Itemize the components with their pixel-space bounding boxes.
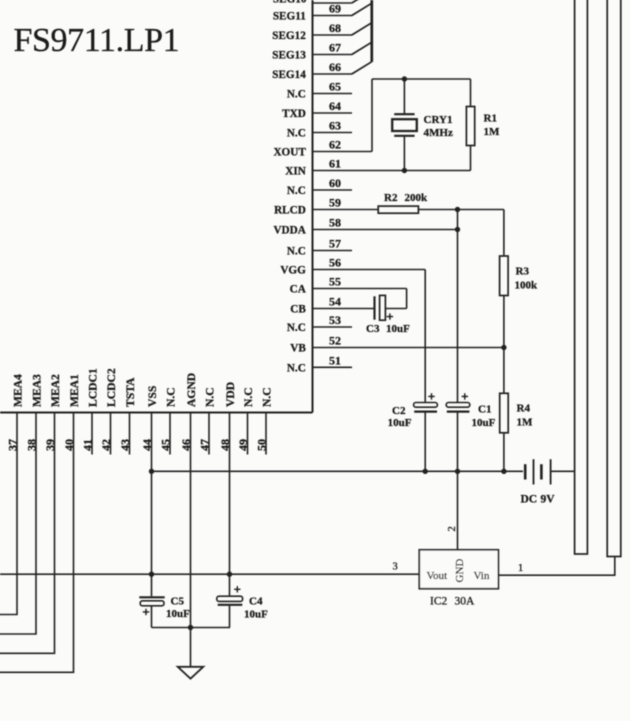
wire crystal loop top xyxy=(372,78,471,80)
svg-text:N.C: N.C xyxy=(287,322,306,334)
C1 polarity plus xyxy=(462,393,468,399)
node crystal bottom junction on XIN xyxy=(402,168,407,173)
svg-text:Vin: Vin xyxy=(474,570,490,582)
crystal CRY1 top plate xyxy=(394,113,414,115)
svg-text:VB: VB xyxy=(290,343,306,355)
svg-text:58: 58 xyxy=(329,216,341,230)
svg-text:MEA2: MEA2 xyxy=(49,374,62,407)
svg-text:FS9711.LP1: FS9711.LP1 xyxy=(14,22,180,59)
wire XOUT to crystal loop xyxy=(352,151,372,153)
ground symbol xyxy=(178,667,204,679)
svg-text:Vout: Vout xyxy=(427,570,448,582)
wire CA line xyxy=(352,288,407,290)
probe bar left xyxy=(575,0,588,554)
wire C3 to CA corner xyxy=(385,308,406,310)
svg-text:VSS: VSS xyxy=(146,386,159,407)
wire R1 bottom lead xyxy=(470,146,472,171)
svg-text:64: 64 xyxy=(329,99,341,113)
pin 50 stub xyxy=(265,413,267,455)
capacitor C2 top plate xyxy=(414,403,438,408)
wire pin 48 VDD vertical xyxy=(229,413,231,597)
resistor R4 xyxy=(500,393,509,433)
wire R4 bottom lead xyxy=(503,433,505,472)
pin 65 stub xyxy=(313,93,353,95)
pin 67 diagonal to bus xyxy=(352,42,372,54)
wire VDDA line xyxy=(352,229,458,231)
svg-text:N.C: N.C xyxy=(203,387,216,407)
pin 55 stub xyxy=(313,288,353,290)
svg-text:59: 59 xyxy=(329,196,341,210)
wire crystal bottom lead xyxy=(403,136,405,171)
SEG bus vertical xyxy=(370,0,373,62)
svg-text:SEG12: SEG12 xyxy=(272,30,306,42)
pin 45 stub xyxy=(169,413,171,455)
capacitor C2 bottom plate xyxy=(414,411,437,413)
wire battery plus to probe bar xyxy=(552,470,576,472)
wire C5 bottom lead xyxy=(151,606,153,628)
pin 68 stub xyxy=(313,34,353,36)
svg-text:CB: CB xyxy=(290,304,306,316)
node rail-R4 junction xyxy=(501,469,506,474)
capacitor C5 top plate xyxy=(139,596,164,598)
svg-text:1M: 1M xyxy=(517,417,534,429)
svg-text:54: 54 xyxy=(329,295,341,309)
wire CA vertical xyxy=(406,289,408,309)
wire VB line xyxy=(352,347,504,349)
node VDDA junction xyxy=(455,227,460,232)
svg-text:C4: C4 xyxy=(249,596,263,608)
svg-text:62: 62 xyxy=(329,138,341,152)
C3 polarity plus xyxy=(387,313,393,319)
pin 63 stub xyxy=(313,132,353,134)
capacitor C4 bottom plate xyxy=(218,604,243,606)
svg-text:9V: 9V xyxy=(541,494,556,506)
wire pin 40 MEA1 xyxy=(0,413,74,673)
svg-text:N.C: N.C xyxy=(287,246,306,258)
svg-text:N.C: N.C xyxy=(242,387,255,407)
svg-text:2: 2 xyxy=(447,526,458,531)
svg-text:SEG14: SEG14 xyxy=(272,69,306,81)
capacitor C1 bottom plate xyxy=(447,411,470,413)
pin 41 stub xyxy=(91,413,93,455)
svg-text:MEA4: MEA4 xyxy=(11,374,24,407)
svg-text:TSTA: TSTA xyxy=(124,377,137,407)
wire bottom rail C5-C4 xyxy=(152,627,231,629)
wire probe bar to Vin xyxy=(499,557,615,576)
node crystal top junction xyxy=(402,76,407,81)
svg-text:10uF: 10uF xyxy=(166,608,190,620)
svg-text:DC: DC xyxy=(521,494,538,506)
svg-text:MEA3: MEA3 xyxy=(30,374,43,407)
svg-text:N.C: N.C xyxy=(287,185,306,197)
svg-text:CRY1: CRY1 xyxy=(424,114,453,126)
IC U1 right edge xyxy=(312,0,314,413)
svg-text:63: 63 xyxy=(329,119,341,133)
battery BT1 long plate 1 xyxy=(533,459,535,484)
svg-text:1: 1 xyxy=(518,563,523,574)
node rail-C1 junction xyxy=(455,469,460,474)
capacitor C4 top plate xyxy=(217,596,243,601)
wire crystal top lead xyxy=(403,79,405,115)
capacitor C3 left plate xyxy=(373,296,375,319)
resistor R3 xyxy=(500,256,509,296)
svg-text:57: 57 xyxy=(329,237,341,251)
wire R3 top lead xyxy=(503,210,505,257)
svg-text:N.C: N.C xyxy=(260,387,273,407)
svg-text:51: 51 xyxy=(329,354,341,368)
wire CB line to C3 xyxy=(352,308,375,310)
pin 51 stub xyxy=(313,366,353,368)
C5 polarity plus xyxy=(143,609,149,615)
svg-text:SEG10: SEG10 xyxy=(273,0,307,5)
wire R4 top lead xyxy=(503,348,505,394)
pin 66 stub xyxy=(313,73,353,75)
regulator IC2 body xyxy=(419,550,498,589)
probe bar right xyxy=(607,0,621,557)
battery BT1 short plate 2 xyxy=(540,464,543,479)
pin 53 stub xyxy=(313,326,353,328)
wire pin 37 MEA4 xyxy=(0,413,17,615)
C4 polarity plus xyxy=(234,586,240,592)
wire R3 bottom lead xyxy=(503,296,505,348)
svg-text:XOUT: XOUT xyxy=(273,147,306,159)
crystal CRY1 bottom plate xyxy=(394,135,414,137)
pin 56 stub xyxy=(313,269,353,271)
pin 52 stub xyxy=(313,347,353,349)
pin 43 stub xyxy=(129,413,131,455)
C2 polarity plus xyxy=(428,393,434,399)
wire C2 bottom lead xyxy=(424,412,426,472)
svg-text:30A: 30A xyxy=(455,596,476,608)
wire RLCD-VDDA-C1 vertical xyxy=(457,210,459,403)
pin 61 stub xyxy=(313,170,353,172)
node VB-R3 junction xyxy=(501,345,506,350)
resistor R2 xyxy=(378,206,418,213)
svg-text:10uF: 10uF xyxy=(388,417,412,429)
pin 59 stub xyxy=(313,209,353,211)
svg-text:68: 68 xyxy=(329,21,341,35)
svg-text:56: 56 xyxy=(329,256,341,270)
svg-text:10uF: 10uF xyxy=(244,608,268,620)
resistor R1 xyxy=(466,107,474,146)
node Vout-VSS junction xyxy=(149,572,154,577)
wire crystal loop left vertical xyxy=(371,79,373,152)
pin 62 stub xyxy=(313,151,353,153)
wire C4 bottom lead xyxy=(229,605,231,628)
pin 60 stub xyxy=(313,189,353,191)
svg-text:C1: C1 xyxy=(478,404,491,416)
wire pin 46 AGND vertical xyxy=(190,413,192,667)
battery BT1 short plate 1 xyxy=(524,464,527,479)
svg-text:LCDC1: LCDC1 xyxy=(86,368,99,407)
svg-text:60: 60 xyxy=(329,176,341,190)
crystal CRY1 body xyxy=(392,119,417,131)
svg-text:10uF: 10uF xyxy=(386,323,410,335)
pin 58 stub xyxy=(313,229,353,231)
pin 70 diagonal xyxy=(352,0,363,3)
capacitor C3 right plate xyxy=(380,295,386,320)
wire pin 44 VSS vertical xyxy=(151,413,153,597)
pin 64 stub xyxy=(313,112,353,114)
svg-text:4MHz: 4MHz xyxy=(424,127,453,139)
wire VGG vertical to C2 xyxy=(424,270,426,403)
svg-text:C2: C2 xyxy=(392,405,406,417)
svg-text:AGND: AGND xyxy=(185,373,198,407)
svg-text:R2: R2 xyxy=(384,192,398,204)
pin 70 stub xyxy=(313,2,352,4)
svg-text:VGG: VGG xyxy=(280,265,306,277)
svg-text:TXD: TXD xyxy=(282,108,306,120)
svg-text:N.C: N.C xyxy=(287,128,306,140)
pin 67 stub xyxy=(313,54,353,56)
pin 49 stub xyxy=(247,413,249,455)
pin 47 stub xyxy=(208,413,210,455)
battery BT1 long plate 2 xyxy=(550,459,552,484)
wire pin 39 MEA2 xyxy=(0,413,55,654)
svg-text:52: 52 xyxy=(329,334,341,348)
svg-text:N.C: N.C xyxy=(164,387,177,407)
svg-text:65: 65 xyxy=(329,80,341,94)
node R2 output junction xyxy=(455,207,460,212)
wire R1 top lead xyxy=(470,79,472,107)
svg-text:1M: 1M xyxy=(484,126,501,138)
node rail-C2 junction xyxy=(423,469,428,474)
svg-text:C3: C3 xyxy=(366,323,380,335)
svg-text:MEA1: MEA1 xyxy=(68,374,81,407)
svg-text:GND: GND xyxy=(454,559,466,583)
svg-text:200k: 200k xyxy=(405,192,429,204)
wire pin 38 MEA3 xyxy=(0,413,36,635)
svg-text:XIN: XIN xyxy=(285,166,306,178)
pin 66 diagonal to bus xyxy=(352,62,372,74)
pin 54 stub xyxy=(313,308,353,310)
capacitor C1 top plate xyxy=(446,403,470,408)
node AGND-bottom rail junction xyxy=(188,625,193,630)
pin 69 diagonal to bus xyxy=(352,3,372,15)
IC U1 bottom edge xyxy=(0,412,313,414)
capacitor C5 bottom plate xyxy=(140,601,164,606)
svg-text:SEG13: SEG13 xyxy=(272,50,306,62)
pin 42 stub xyxy=(110,413,112,455)
svg-text:R1: R1 xyxy=(484,113,497,125)
wire main rail VSS-battery xyxy=(152,470,524,472)
wire Vout line xyxy=(0,573,419,575)
wire RLCD to R2 xyxy=(352,209,378,211)
wire R2 to R3 corner xyxy=(418,209,504,211)
svg-text:CA: CA xyxy=(290,284,306,296)
wire XIN line xyxy=(352,170,471,172)
svg-text:66: 66 xyxy=(329,60,341,74)
wire C1 bottom lead / IC2 GND lead xyxy=(457,412,459,550)
node rail-VSS junction xyxy=(149,469,154,474)
svg-text:N.C: N.C xyxy=(287,89,306,101)
svg-text:53: 53 xyxy=(329,313,341,327)
svg-text:55: 55 xyxy=(329,275,341,289)
pin 57 stub xyxy=(313,250,353,252)
pin 68 diagonal to bus xyxy=(352,23,372,35)
svg-text:100k: 100k xyxy=(515,280,539,292)
svg-text:67: 67 xyxy=(329,41,341,55)
svg-text:LCDC2: LCDC2 xyxy=(105,368,118,407)
svg-text:C5: C5 xyxy=(171,596,185,608)
svg-text:61: 61 xyxy=(329,157,341,171)
svg-text:VDD: VDD xyxy=(224,382,237,407)
svg-text:3: 3 xyxy=(393,562,398,573)
svg-text:RLCD: RLCD xyxy=(274,205,306,217)
svg-text:R3: R3 xyxy=(516,266,530,278)
svg-text:R4: R4 xyxy=(517,403,531,415)
svg-text:10uF: 10uF xyxy=(472,417,496,429)
svg-text:IC2: IC2 xyxy=(430,596,448,608)
svg-text:SEG11: SEG11 xyxy=(273,11,306,23)
svg-text:N.C: N.C xyxy=(287,363,306,375)
svg-text:VDDA: VDDA xyxy=(273,225,305,237)
pin 69 stub xyxy=(313,15,353,17)
wire VGG line xyxy=(352,269,425,271)
node Vout-VDD junction xyxy=(227,572,232,577)
